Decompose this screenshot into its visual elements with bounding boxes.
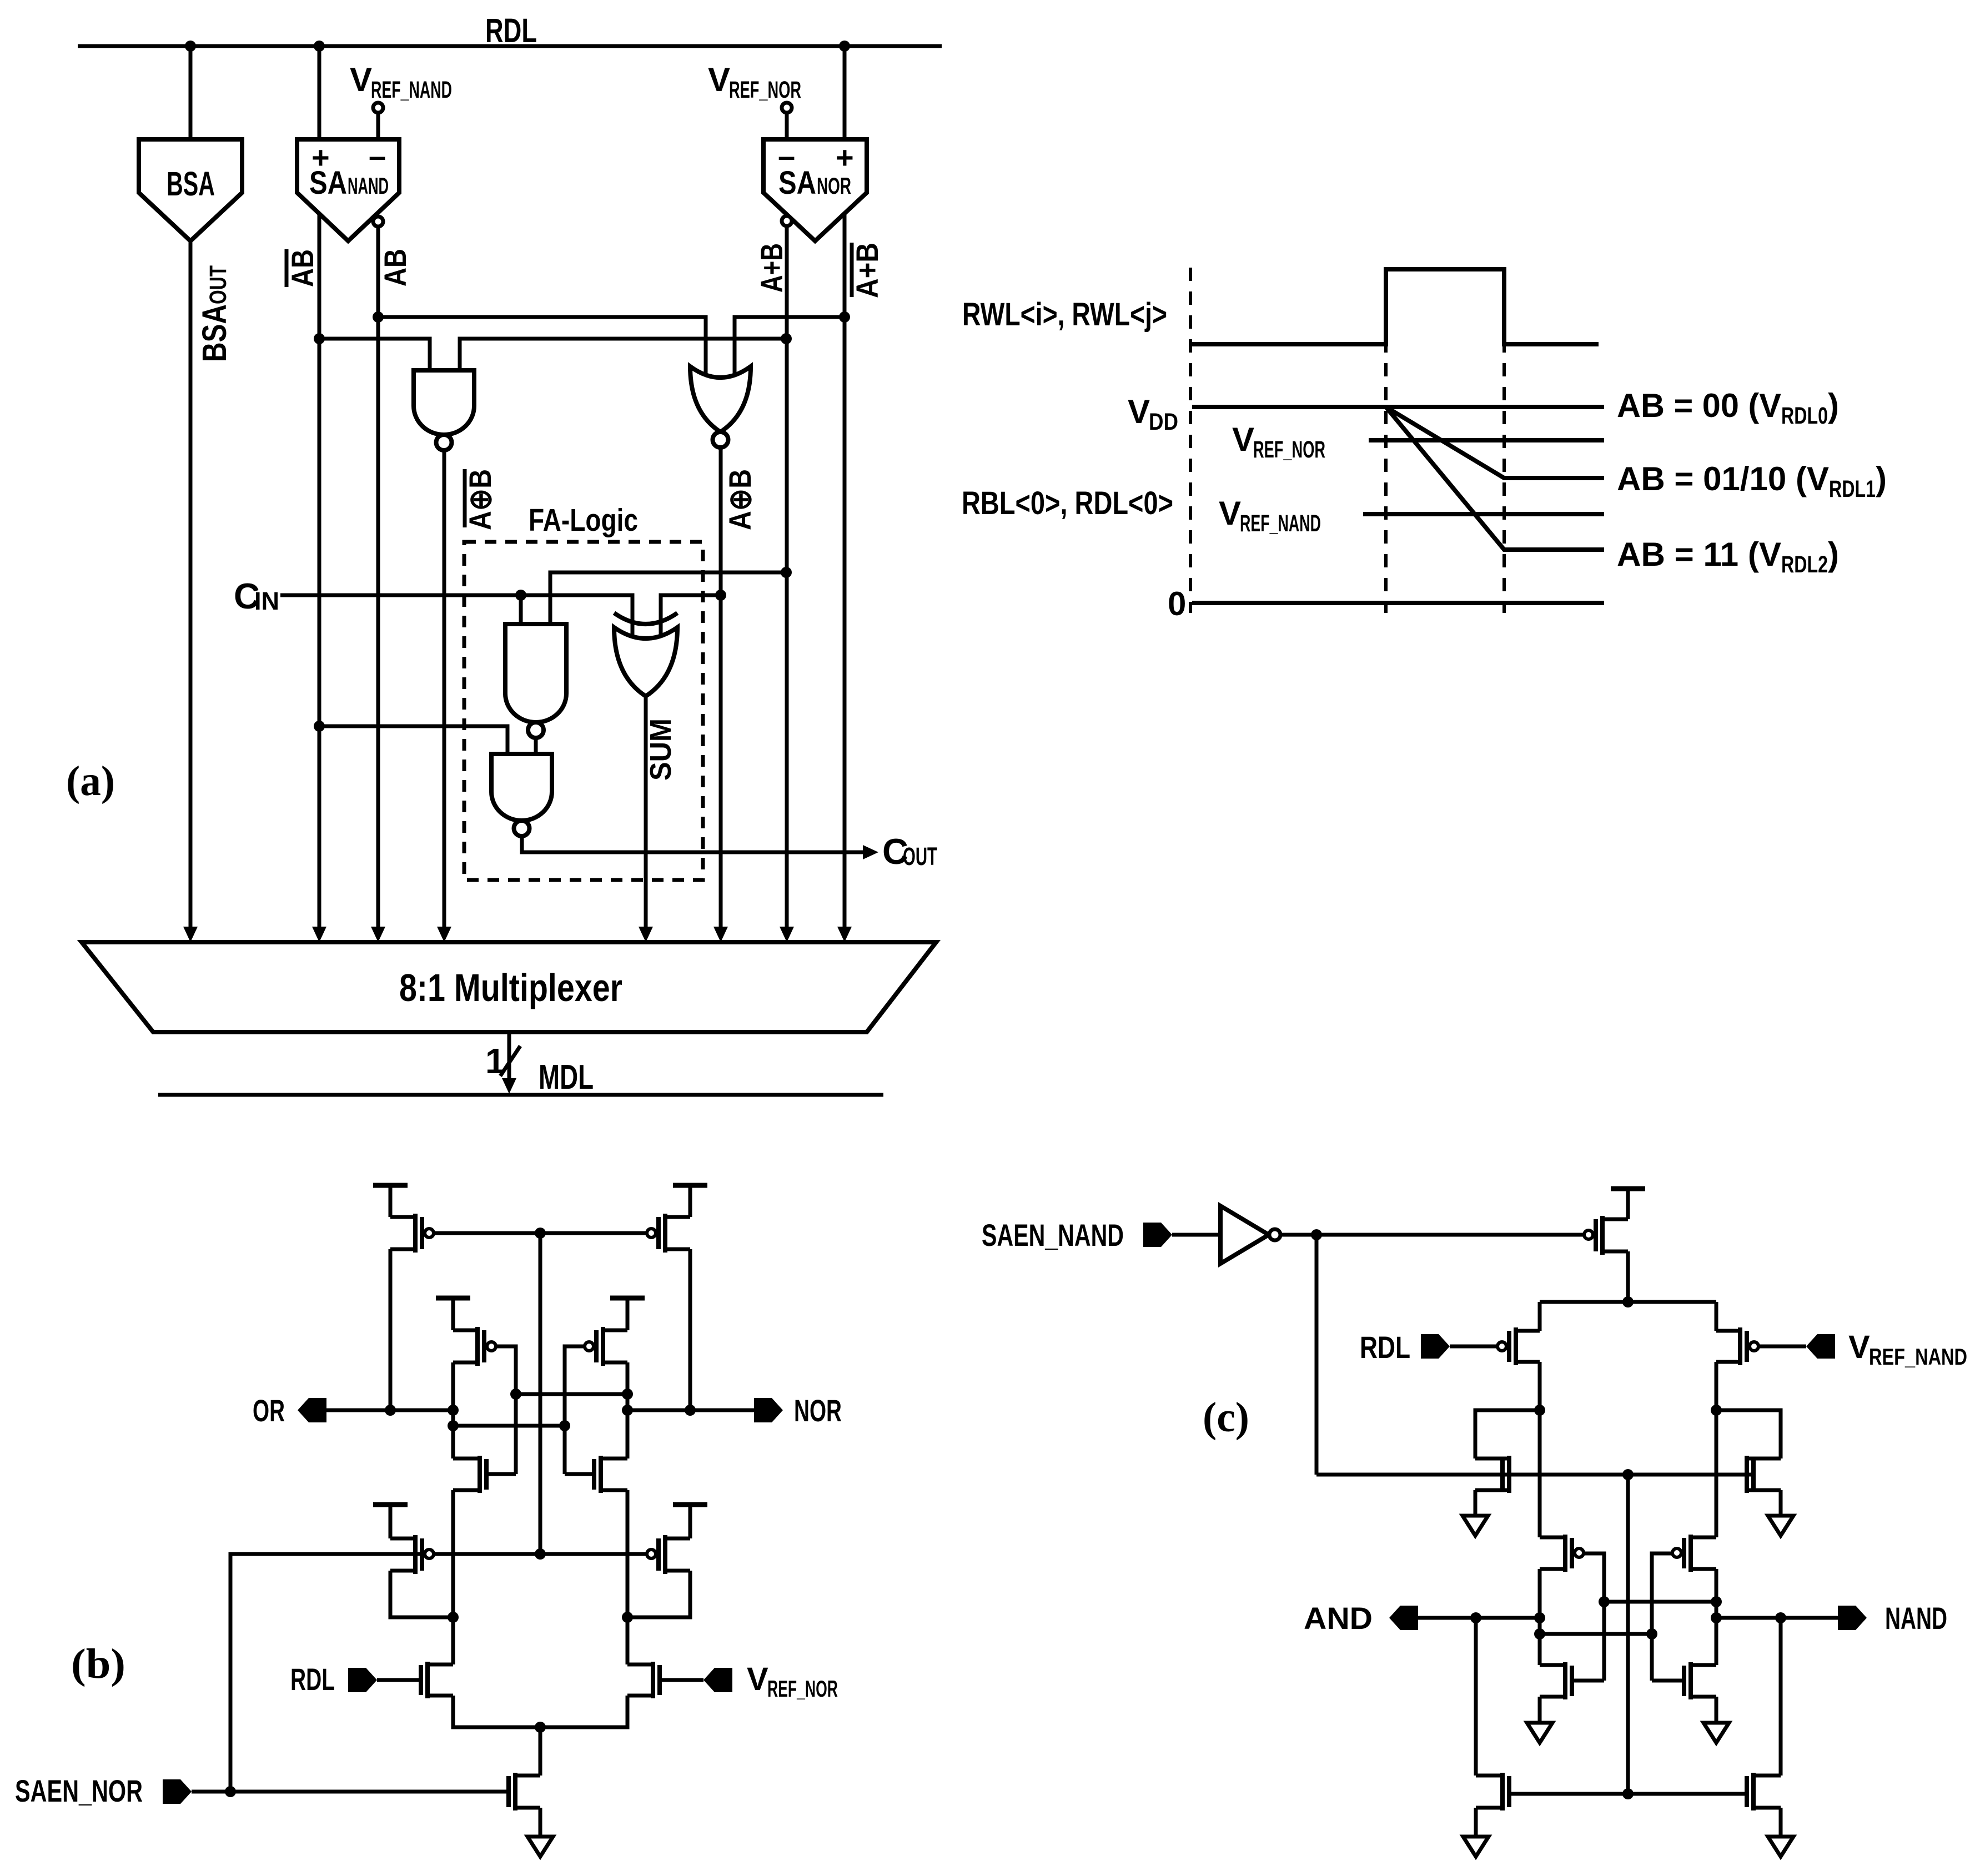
junction on RDL at SA_NOR [839, 41, 850, 52]
net A+B (OR output) wire to mux [785, 226, 789, 927]
wire VREF_NAND to SA_NAND - input [376, 113, 380, 139]
NMOS clock right (c) [1751, 1773, 1756, 1810]
power VDD bar top-left (b) [373, 1183, 408, 1188]
FA NAND1 gate [505, 624, 566, 722]
wire FA NAND1 input B from A+B [550, 572, 786, 624]
wire RDL to SA_NOR + input [843, 46, 847, 139]
label A+B overbar [850, 243, 854, 297]
junction nAB to xnor-gate feed [314, 333, 325, 344]
NMOS tail SAEN_NOR (b) [513, 1773, 517, 1810]
input tag SAEN_NAND [1143, 1223, 1172, 1247]
wire AB to NOR gate input A [378, 317, 706, 374]
svg-text:RDL: RDL [485, 12, 537, 49]
svg-text:+: + [836, 140, 854, 175]
NMOS latch right (c) [1688, 1662, 1693, 1699]
wire clamp right to ground [1779, 1490, 1783, 1516]
FA NAND2 gate [491, 754, 552, 821]
svg-text:NAND: NAND [348, 173, 389, 199]
ground clamp right (c) [1768, 1516, 1793, 1536]
svg-text:AND: AND [1304, 1601, 1373, 1636]
net AND node wire [1418, 1616, 1540, 1620]
junction on A+B line [781, 333, 792, 344]
wire latch PMOS left gate [1582, 1553, 1604, 1681]
net nA+B (NOR output) wire to mux [843, 214, 847, 927]
svg-text:V: V [1128, 393, 1150, 430]
wire cross-couple B (OR rail to P4/N2 gate) [453, 1424, 565, 1428]
power VDD bar mid-right (b) [610, 1296, 645, 1301]
junction OR at P3 drain [448, 1405, 459, 1416]
sense amp SA_NOR [763, 139, 867, 241]
svg-text:DD: DD [1149, 409, 1178, 435]
wire T1 drain to OR node [389, 1249, 393, 1410]
NMOS latch left (c) [1563, 1662, 1567, 1699]
PMOS tail (c) [1602, 1218, 1628, 1221]
svg-text:NOR: NOR [794, 1393, 842, 1428]
wire node to RDL PMOS [1538, 1302, 1542, 1331]
wire cross-couple B' (c) [1540, 1632, 1652, 1636]
junction inverter out branch [1311, 1229, 1322, 1240]
XOR gate (SUM) [614, 627, 677, 696]
svg-text:SUM: SUM [644, 718, 677, 781]
sense amp SA_NAND [297, 139, 399, 241]
waveform VREF_NAND level [1363, 512, 1604, 516]
wire RDL PMOS drain to AND rail [1538, 1362, 1542, 1410]
net XOR output wire to mux [719, 447, 723, 927]
svg-text:(b): (b) [71, 1641, 125, 1687]
svg-text:BSAOUT: BSAOUT [195, 265, 233, 362]
wire XOR gate input B from XOR net [661, 595, 721, 636]
svg-text:A+B: A+B [850, 243, 885, 298]
svg-text:): ) [1828, 536, 1839, 573]
net XNOR output wire to mux [443, 450, 446, 927]
svg-text:REF_NOR: REF_NOR [1253, 436, 1325, 463]
svg-text:1: 1 [485, 1041, 505, 1081]
sense amp BSA [139, 139, 242, 241]
junction nAB to NAND2 input A [314, 721, 325, 732]
ground clamp left (c) [1463, 1516, 1488, 1536]
svg-text:MDL: MDL [539, 1058, 594, 1097]
wire NOR rail down to N2 [626, 1410, 630, 1458]
svg-text:): ) [1876, 460, 1887, 497]
net AB (AND output) wire to mux [376, 227, 380, 927]
svg-text:RDL: RDL [290, 1662, 335, 1697]
junction clock gate line center [1622, 1788, 1634, 1799]
svg-text:AB: AB [285, 249, 320, 287]
net SUM wire to mux [644, 696, 648, 927]
net CIN wire [280, 595, 632, 636]
power VDD bar mid-left (b) [436, 1296, 470, 1301]
NMOS clamp right (c) [1745, 1456, 1749, 1493]
wire nAB to NAND gate input A [319, 339, 430, 370]
svg-text:V: V [708, 61, 730, 98]
wire SAENb clamp gate line (c) [1316, 1473, 1755, 1477]
terminal VREF_NOR [782, 103, 792, 113]
wire clock left source to ground [1474, 1808, 1478, 1837]
wire right rail to latch (c) [1715, 1410, 1718, 1537]
wire tail NMOS source to ground [539, 1808, 542, 1837]
junction NOR at T2 drain [685, 1405, 696, 1416]
wire T2 drain to NOR node [689, 1249, 692, 1410]
terminal VREF_NAND [373, 103, 383, 113]
junction on XOR net line [715, 590, 726, 601]
waveform VREF_NOR level [1369, 438, 1604, 442]
wire VREF_NOR to SA_NOR - input [785, 113, 789, 139]
svg-text:NOR: NOR [817, 173, 851, 199]
waveform discharge to VRDL2 [1386, 407, 1604, 550]
net nAB (NAND output) wire to mux [318, 214, 321, 927]
output tag NAND [1838, 1606, 1867, 1630]
svg-text:REF_NOR: REF_NOR [729, 77, 801, 103]
power VDD bar tail (c) [1611, 1186, 1645, 1191]
svg-text:A⊕B: A⊕B [722, 469, 757, 530]
junction tail node (b) [535, 1722, 546, 1733]
PMOS latch left (c) [1563, 1535, 1567, 1572]
NAND gate (XNOR generator) [414, 370, 474, 435]
wire SAEN_NAND to inverter [1172, 1233, 1220, 1237]
wire P5 drain to left rail [390, 1571, 453, 1617]
svg-text:NAND: NAND [1885, 1601, 1947, 1636]
waveform RWL pulse [1192, 269, 1599, 344]
junction P5 drain [448, 1612, 459, 1623]
wire inverter out to tail PMOS gate [1280, 1233, 1591, 1237]
NMOS clock left (c) [1500, 1773, 1505, 1810]
bubble output SA_NAND [373, 217, 383, 227]
bubble output SA_NOR [782, 216, 792, 226]
junction SAEN gate line center [535, 1548, 546, 1560]
wire latch rail left mid (c) [1538, 1569, 1542, 1665]
junction OR at T1 drain [385, 1405, 396, 1416]
wire clock right source to ground [1779, 1808, 1783, 1837]
svg-text:V: V [350, 61, 372, 98]
svg-text:V: V [747, 1661, 768, 1697]
wire latch PMOS right gate [1652, 1553, 1674, 1681]
junction NAND to clock NMOS rail [1775, 1612, 1786, 1623]
input tag VREF_NOR (b) [703, 1668, 732, 1692]
svg-text:AB: AB [378, 249, 413, 286]
wire RDL tag to PMOS gate [1450, 1345, 1497, 1349]
junction on A+B line to NAND1 [781, 567, 792, 578]
svg-text:V: V [1219, 495, 1241, 532]
svg-text:RWL<i>, RWL<j>: RWL<i>, RWL<j> [962, 296, 1167, 333]
timing dashed marker t1 [1384, 268, 1388, 613]
ground tail (b) [527, 1837, 553, 1857]
NMOS clamp left (c) [1507, 1456, 1511, 1493]
svg-text:SA: SA [309, 165, 347, 201]
net COUT wire [522, 834, 863, 852]
wire P4 drain to NOR node [626, 1362, 630, 1410]
wire AND rail down to clock NMOS [1474, 1618, 1478, 1776]
wire P4 gate down to N2 gate [565, 1346, 585, 1474]
mux output wire to MDL [507, 1032, 511, 1078]
dashed box FA-Logic [464, 542, 703, 880]
wire right internal rail N2 to diff pair [626, 1490, 630, 1664]
wire NAND1 out to NAND2 input B [534, 738, 538, 754]
net MDL line [158, 1093, 883, 1097]
NMOS N1 latch left (b) [478, 1456, 482, 1493]
wire N2 gate [565, 1472, 593, 1476]
wire SAENb down-left branch [1315, 1235, 1319, 1475]
NMOS input RDL (b) [425, 1662, 430, 1698]
junction CIN to FA NAND1 input A [515, 590, 526, 601]
PMOS input RDL (c) [1516, 1329, 1540, 1333]
svg-text:V: V [1848, 1329, 1870, 1365]
junction on nA+B line [839, 311, 850, 323]
wire left rail to latch (c) [1538, 1410, 1542, 1537]
svg-text:IN: IN [254, 587, 279, 615]
svg-text:REF_NOR: REF_NOR [767, 1676, 838, 1702]
PMOS P6 clamp right (b) [665, 1537, 690, 1541]
wire T1-T2 gate tie [434, 1231, 647, 1235]
ground clock left (c) [1463, 1837, 1489, 1857]
wire SAEN_NOR gate line (b) [230, 1554, 657, 1792]
wire OR rail down to N1 [451, 1410, 455, 1458]
wire left internal rail N1 to diff pair [451, 1490, 455, 1664]
input tag SAEN_NOR [163, 1779, 192, 1804]
wire clamp left to ground [1474, 1490, 1478, 1516]
inverter (c) [1220, 1206, 1269, 1264]
wire clamp-left connection [1475, 1410, 1540, 1458]
svg-text:(a): (a) [66, 758, 115, 804]
wire SAEN center column (b) [539, 1233, 542, 1554]
wire NAND gate input B from A+B [460, 339, 786, 370]
wire CIN to FA NAND1 input A [519, 595, 523, 624]
wire cross-couple A (P3/N1 gate to NOR rail) [516, 1392, 627, 1396]
PMOS T2 top-right (b) [665, 1215, 690, 1219]
junction NOR at P4 drain [622, 1405, 633, 1416]
wire NAND rail down to clock NMOS [1779, 1618, 1783, 1776]
wire source node line (c) [1540, 1300, 1716, 1304]
PMOS T1 top-left (b) [390, 1215, 415, 1219]
label nAB overbar [285, 249, 289, 287]
net BSAOUT wire to mux [189, 241, 193, 927]
output tag AND [1389, 1606, 1418, 1630]
junction gate tie to SAEN column [535, 1228, 546, 1239]
wire P3 gate down to N1 gate [496, 1346, 516, 1474]
wire SAENb center column down (c) [1626, 1475, 1630, 1794]
wire cross-couple A' (c) [1604, 1600, 1716, 1604]
junction tail drain node (c) [1622, 1296, 1634, 1307]
input tag RDL (b) [348, 1668, 377, 1692]
power VDD bar clamp-left (b) [373, 1502, 408, 1507]
PMOS input VREF_NAND (c) [1716, 1329, 1740, 1333]
wire RDL to SA_NAND + input [318, 46, 321, 139]
net OR node wire [326, 1409, 453, 1412]
svg-text:RDL: RDL [1360, 1330, 1410, 1365]
junction AND at latch rail [1534, 1612, 1545, 1623]
svg-text:RBL<0>, RDL<0>: RBL<0>, RDL<0> [962, 485, 1173, 521]
waveform 0 baseline [1192, 601, 1604, 605]
svg-text:V: V [1232, 421, 1254, 458]
svg-text:–: – [369, 138, 386, 173]
wire clock NMOS gate line (c) [1510, 1792, 1746, 1796]
input tag RDL (c) [1421, 1334, 1450, 1359]
power VDD bar top-right (b) [673, 1183, 707, 1188]
svg-text:OR: OR [253, 1393, 285, 1428]
svg-text:SA: SA [778, 165, 816, 201]
net NAND node wire [1716, 1616, 1838, 1620]
wire VREF NMOS source down [540, 1696, 627, 1727]
wire tail PMOS drain down [1626, 1251, 1630, 1302]
junction on RDL at SA_NAND [314, 41, 325, 52]
junction AB to nor-gate feed [373, 311, 384, 323]
junction clamp gate line center [1622, 1469, 1634, 1480]
8:1 multiplexer [82, 942, 936, 1032]
svg-text:RDL1: RDL1 [1829, 476, 1876, 502]
wire NOR gate input B from nA+B [735, 317, 845, 374]
timing dashed marker t2 [1502, 268, 1506, 613]
wire clamp-right connection [1716, 1410, 1781, 1458]
wire VREF tag to PMOS gate [1759, 1345, 1806, 1349]
NOR gate (XOR generator) [690, 366, 751, 432]
junction NAND at latch rail [1711, 1612, 1722, 1623]
net RDL bus line [78, 44, 942, 48]
waveform VDD level AB=00 [1192, 405, 1604, 409]
junction SAEN_NOR branch [225, 1786, 236, 1797]
bus width slash [500, 1046, 520, 1076]
wire latch right source to ground [1715, 1697, 1718, 1723]
svg-text:BSA: BSA [167, 165, 215, 203]
svg-text:AB = 01/10 (V: AB = 01/10 (V [1617, 460, 1829, 497]
svg-text:SAEN_NOR: SAEN_NOR [15, 1773, 143, 1808]
wire RDL tag to gate [377, 1678, 420, 1682]
svg-text:REF_NAND: REF_NAND [1869, 1344, 1967, 1370]
svg-text:OUT: OUT [903, 842, 937, 871]
wire N1 gate [488, 1472, 516, 1476]
wire node to VREF PMOS [1715, 1302, 1718, 1331]
wire RDL to BSA input [189, 46, 193, 139]
ground latch left (c) [1527, 1723, 1552, 1743]
svg-text:SAEN_NAND: SAEN_NAND [982, 1218, 1124, 1253]
junction RDL drain node (c) [1534, 1405, 1545, 1416]
wire tail node to tail NMOS [539, 1727, 542, 1776]
PMOS P3 mid-left (b) [453, 1329, 478, 1332]
wire latch left source to ground [1538, 1697, 1542, 1723]
PMOS P5 clamp left (b) [390, 1537, 415, 1541]
svg-text:RDL2: RDL2 [1781, 551, 1828, 578]
input tag VREF_NAND (c) [1806, 1334, 1835, 1359]
svg-text:A+B: A+B [754, 243, 789, 293]
wire P6 drain to right rail [627, 1571, 690, 1617]
svg-text:(c): (c) [1203, 1394, 1249, 1441]
svg-text:8:1 Multiplexer: 8:1 Multiplexer [399, 966, 622, 1009]
label A xor B overbar [463, 469, 467, 527]
waveform discharge to VRDL1 [1386, 407, 1604, 478]
ground clock right (c) [1768, 1837, 1793, 1857]
junction P6 drain [622, 1612, 633, 1623]
wire VREF PMOS drain to NAND rail [1715, 1362, 1718, 1410]
PMOS latch right (c) [1688, 1535, 1693, 1572]
svg-text:RDL0: RDL0 [1781, 403, 1828, 429]
wire latch NMOS right gate [1652, 1679, 1683, 1683]
svg-text:AB = 11 (V: AB = 11 (V [1617, 536, 1781, 573]
wire latch rail right mid (c) [1715, 1569, 1718, 1665]
timing dashed marker t0 [1189, 268, 1192, 613]
wire SAEN_NOR to tail gate [192, 1790, 507, 1794]
wire nAB to FA NAND2 input A [319, 726, 507, 754]
output tag NOR [754, 1398, 783, 1422]
net NOR node wire [627, 1409, 754, 1412]
ground latch right (c) [1703, 1723, 1729, 1743]
svg-text:REF_NAND: REF_NAND [371, 77, 452, 103]
svg-text:REF_NAND: REF_NAND [1240, 510, 1321, 537]
svg-text:A⊕B: A⊕B [463, 469, 497, 530]
junction AND to clock NMOS rail [1470, 1612, 1481, 1623]
wire VREF tag to gate [661, 1678, 703, 1682]
svg-text:): ) [1828, 387, 1839, 424]
wire latch NMOS left gate [1573, 1679, 1604, 1683]
junction VREF drain node (c) [1711, 1405, 1722, 1416]
NMOS input VREF_NOR (b) [651, 1662, 655, 1698]
svg-text:AB = 00 (V: AB = 00 (V [1617, 387, 1781, 424]
output tag OR [298, 1398, 326, 1422]
wire RDL NMOS source down [453, 1696, 540, 1727]
power VDD bar clamp-right (b) [673, 1502, 707, 1507]
svg-text:0: 0 [1168, 585, 1186, 622]
NMOS N2 latch right (b) [599, 1456, 603, 1493]
junction on RDL at BSA [185, 41, 196, 52]
PMOS P4 mid-right (b) [603, 1329, 627, 1332]
wire P3 drain to OR node [451, 1362, 455, 1410]
svg-text:FA-Logic: FA-Logic [529, 502, 638, 538]
